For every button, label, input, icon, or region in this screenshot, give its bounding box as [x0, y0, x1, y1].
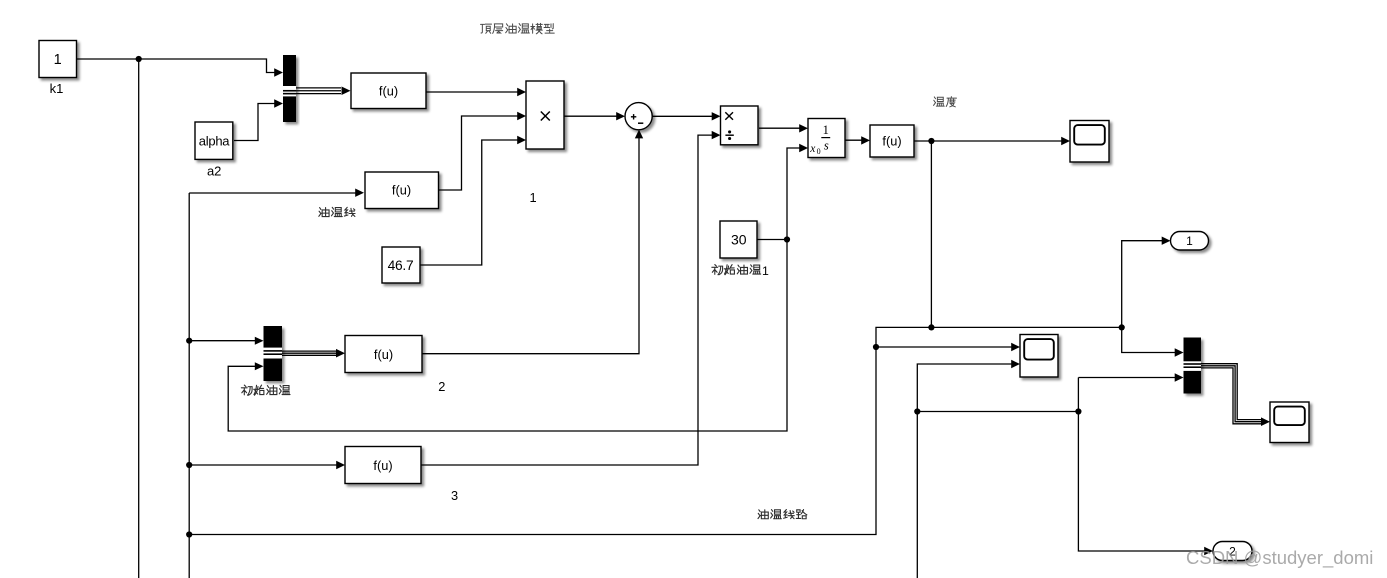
svg-text:3: 3: [451, 488, 458, 503]
svg-text:1: 1: [529, 190, 536, 205]
svg-text:f(u): f(u): [373, 458, 392, 473]
svg-text:1: 1: [54, 52, 62, 68]
svg-text:x: x: [809, 143, 816, 155]
svg-text:f(u): f(u): [392, 183, 411, 198]
svg-text:a2: a2: [207, 164, 221, 179]
svg-text:s: s: [824, 138, 829, 152]
svg-text:1: 1: [823, 123, 829, 137]
svg-text:f(u): f(u): [882, 133, 901, 148]
svg-text:1: 1: [762, 264, 769, 278]
svg-text:f(u): f(u): [374, 347, 393, 362]
svg-text:k1: k1: [50, 81, 64, 96]
svg-text:f(u): f(u): [379, 83, 398, 98]
svg-text:1: 1: [1186, 234, 1193, 248]
svg-text:0: 0: [817, 147, 821, 156]
svg-text:alpha: alpha: [199, 134, 231, 149]
svg-text:2: 2: [438, 379, 445, 394]
svg-text:30: 30: [731, 231, 747, 247]
svg-text:46.7: 46.7: [388, 258, 414, 273]
svg-text:CSDN @studyer_domi: CSDN @studyer_domi: [1186, 547, 1373, 569]
